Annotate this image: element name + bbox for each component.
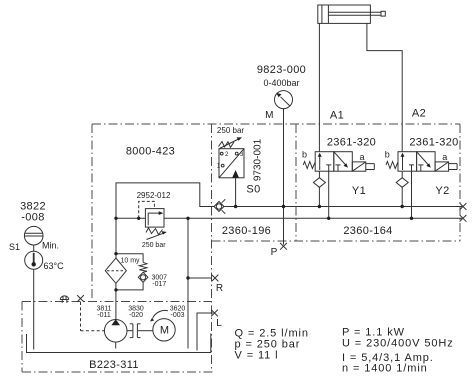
svg-text:P: P	[271, 247, 278, 258]
svg-text:1: 1	[217, 164, 221, 170]
manifold bottom boundary	[212, 240, 461, 242]
svg-text:Y1: Y1	[352, 185, 366, 197]
svg-text:S1: S1	[9, 242, 20, 252]
manifold divider 2360-196 / 2360-164	[295, 124, 297, 241]
pressure switch 9730-001 body	[219, 149, 244, 178]
level switch 3822-008 S1	[24, 226, 43, 245]
filter bypass check valve 3007-017	[116, 254, 143, 263]
svg-text:U = 230/400V 50Hz: U = 230/400V 50Hz	[342, 337, 454, 349]
svg-text:V = 11 l: V = 11 l	[235, 349, 279, 361]
svg-text:0-400bar: 0-400bar	[263, 78, 299, 88]
solenoid valve Y2 2361-320	[386, 152, 457, 219]
svg-text:9730-001: 9730-001	[253, 138, 264, 181]
port R X mark	[212, 275, 219, 282]
valve Y2 solenoid	[435, 162, 449, 171]
check valve under Y2	[401, 171, 403, 178]
svg-text:250 bar: 250 bar	[217, 126, 244, 135]
svg-text:Y2: Y2	[435, 185, 449, 197]
check valve on P line	[214, 202, 224, 212]
cylinder rod	[328, 11, 381, 13]
wire Y1 P port	[318, 187, 320, 206]
svg-text:2361-320: 2361-320	[327, 136, 376, 148]
wire Y2 P port	[401, 187, 403, 206]
wire tank return drop	[187, 218, 189, 348]
breather filler	[60, 296, 69, 300]
enclosure 8000-423 boundary left	[91, 124, 93, 302]
enclosure 8000-423 boundary top	[22, 124, 460, 372]
svg-text:a: a	[359, 152, 364, 162]
svg-text:L: L	[216, 318, 222, 329]
svg-text:S0: S0	[246, 184, 260, 196]
svg-text:A2: A2	[412, 107, 426, 119]
wire Y1 T port	[328, 171, 330, 218]
valve Y1 spring	[303, 162, 315, 169]
svg-text:10 my: 10 my	[120, 258, 140, 265]
wire Y2 T port	[411, 171, 413, 218]
valve Y2 spring	[386, 162, 398, 169]
svg-text:a: a	[442, 152, 447, 162]
svg-text:2952-012: 2952-012	[137, 191, 171, 200]
junction dots	[114, 217, 117, 220]
svg-text:250 bar: 250 bar	[142, 242, 166, 249]
wire R port branch	[188, 277, 212, 279]
svg-text:2: 2	[225, 152, 229, 158]
pump drain line (dashed)	[81, 302, 105, 331]
svg-text:b: b	[302, 150, 307, 160]
port L X mark	[211, 310, 218, 317]
wire T manifold line left	[116, 217, 145, 219]
wire filter to pump	[115, 283, 117, 319]
plugged P port X mark right	[460, 203, 467, 210]
svg-text:-008: -008	[21, 212, 44, 224]
svg-text:8000-423: 8000-423	[126, 146, 175, 158]
relief valve spring and adjust arrow	[146, 228, 163, 235]
tank unit B223-311 bottom boundary	[22, 371, 213, 373]
relief valve pilot line (dashed)	[139, 201, 155, 218]
wire gauge stem to P port	[283, 109, 285, 245]
wire A2 line cylinder to valve Y2	[367, 23, 402, 151]
tank unit B223-311 left boundary	[21, 302, 23, 373]
wire pressure switch stem	[235, 178, 237, 207]
svg-text:A1: A1	[330, 110, 344, 122]
motor rotation arrow	[153, 310, 169, 318]
svg-text:M: M	[160, 325, 169, 337]
wire T manifold line right	[164, 217, 462, 219]
svg-text:-011: -011	[97, 312, 111, 319]
wire L port line	[197, 313, 213, 351]
svg-text:n = 1400 1/min: n = 1400 1/min	[342, 362, 428, 374]
wire sensor dip tube	[33, 269, 35, 349]
svg-text:R: R	[216, 283, 223, 294]
wire A1 line cylinder to valve Y1	[318, 23, 320, 151]
coupling 3830-020	[127, 330, 132, 332]
tank unit B223-311 top boundary	[22, 301, 212, 303]
svg-text:63°C: 63°C	[44, 261, 65, 271]
pump 3811-011	[104, 320, 127, 343]
svg-text:b: b	[385, 150, 390, 160]
wire pump suction	[115, 342, 117, 348]
wire pump riser	[116, 183, 214, 258]
plugged T port X mark right	[460, 215, 467, 222]
thermometer	[25, 251, 43, 269]
cylinder piston	[321, 5, 323, 23]
svg-text:2360-164: 2360-164	[343, 225, 392, 237]
wire P manifold line	[224, 206, 462, 208]
svg-text:2360-196: 2360-196	[222, 225, 271, 237]
enclosure boundary vertical x=211.5	[211, 124, 213, 372]
pressure switch spring and adjust arrow	[219, 142, 235, 148]
cylinder body	[318, 5, 371, 23]
solenoid valve Y1 2361-320	[303, 152, 374, 219]
motor 3620-003	[153, 319, 175, 341]
port P X mark	[280, 243, 287, 250]
valve Y1 solenoid	[352, 162, 366, 171]
svg-text:9823-000: 9823-000	[257, 64, 306, 76]
check valve under Y1	[318, 171, 320, 178]
svg-text:Min.: Min.	[42, 241, 59, 251]
svg-text:M: M	[265, 110, 274, 121]
svg-text:3: 3	[240, 152, 244, 158]
svg-text:B223-311: B223-311	[89, 359, 139, 371]
tank top plugged port X mark	[77, 295, 84, 302]
relief valve 2952-012 body	[145, 209, 164, 228]
svg-text:-017: -017	[152, 281, 166, 288]
tank outline	[27, 334, 211, 353]
svg-text:-020: -020	[129, 312, 143, 319]
manifold 2360-164 right edge	[459, 124, 461, 241]
svg-text:-003: -003	[170, 312, 184, 319]
svg-text:2361-320: 2361-320	[409, 136, 458, 148]
filter 10my diamond	[105, 258, 126, 283]
pressure gauge 9823-000	[275, 91, 293, 109]
